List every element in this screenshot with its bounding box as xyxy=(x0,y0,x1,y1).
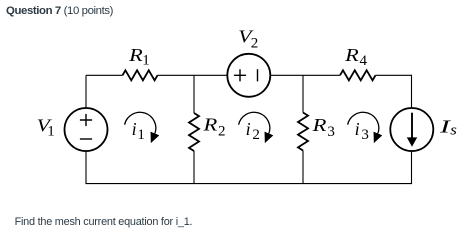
mesh current i2 xyxy=(239,112,270,143)
svg-text:1: 1 xyxy=(47,124,55,140)
svg-text:R: R xyxy=(311,115,326,135)
svg-text:R: R xyxy=(344,45,359,65)
mesh current i1 xyxy=(125,112,156,143)
svg-text:i: i xyxy=(132,119,137,139)
resistor R3 xyxy=(298,113,335,151)
svg-text:3: 3 xyxy=(361,127,369,143)
wire R2 branch top xyxy=(193,75,195,113)
svg-text:R: R xyxy=(128,45,143,65)
svg-text:s: s xyxy=(450,123,457,139)
current source Is xyxy=(390,108,457,151)
resistor R4 xyxy=(340,45,376,80)
wire from V1 up to top-left corner xyxy=(85,75,87,108)
svg-text:2: 2 xyxy=(218,124,226,140)
svg-text:i: i xyxy=(355,119,360,139)
resistor R2 xyxy=(189,113,226,151)
voltage source V2 xyxy=(227,27,270,97)
wire between V2 and R4 xyxy=(270,74,340,76)
wire from Is down to bottom-right corner and along bottom to V1 xyxy=(86,151,412,184)
svg-text:i: i xyxy=(246,119,251,139)
svg-text:2: 2 xyxy=(251,36,258,52)
wire R3 branch bottom xyxy=(302,151,304,184)
resistor R1 xyxy=(123,45,158,80)
svg-text:1: 1 xyxy=(142,53,150,69)
bottom instruction text xyxy=(15,216,193,228)
svg-text:R: R xyxy=(202,115,217,135)
wire R2 branch bottom xyxy=(193,151,195,184)
wire R3 branch top xyxy=(302,75,304,112)
svg-text:2: 2 xyxy=(252,127,260,143)
svg-text:4: 4 xyxy=(360,53,368,69)
svg-text:3: 3 xyxy=(327,124,335,140)
title text xyxy=(6,5,113,17)
svg-text:1: 1 xyxy=(137,127,145,143)
mesh current i3 xyxy=(348,112,379,143)
voltage source V1 xyxy=(37,108,108,151)
wire between R1 and V2 xyxy=(158,74,228,76)
wire top-left segment xyxy=(86,74,123,76)
wire from R4 to top-right corner and down to Is xyxy=(376,75,412,108)
